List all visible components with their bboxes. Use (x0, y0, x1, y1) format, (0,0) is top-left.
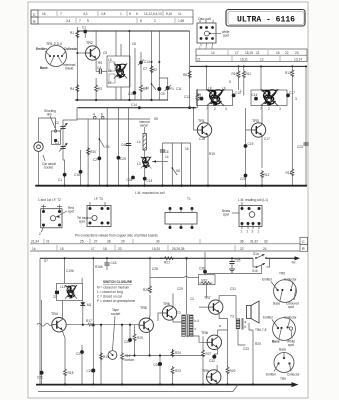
pin diagram IF T3 (77, 197, 111, 227)
wire TR7 emitter (219, 313, 227, 319)
wire T3 bottom (238, 329, 246, 345)
svg-text:S1a: S1a (253, 252, 259, 256)
svg-text:Pin connections viewed from co: Pin connections viewed from copper side … (75, 234, 158, 238)
C R reference boxes (300, 237, 308, 244)
svg-text:TR2: TR2 (86, 41, 93, 45)
svg-text:11: 11 (178, 12, 182, 16)
svg-text:15: 15 (60, 247, 64, 251)
wire main bus x186.5 (186, 258, 188, 314)
component ruler bottom (30, 237, 308, 251)
resistor R10 (238, 65, 240, 67)
capacitor C32 (214, 354, 217, 355)
svg-text:C35: C35 (235, 259, 241, 263)
svg-text:Emitter: Emitter (263, 316, 274, 320)
svg-text:C30: C30 (154, 363, 160, 367)
svg-text:21: 21 (46, 240, 50, 244)
svg-text:6: 6 (101, 113, 103, 117)
resistor R21 (160, 257, 163, 259)
wire TR1 collector (207, 106, 209, 124)
pin diagram LM reading coil L1 (222, 198, 268, 234)
oscillator coil box L13 (53, 278, 83, 301)
svg-text:R30: R30 (90, 150, 96, 154)
resistor R22 box (198, 275, 215, 285)
svg-text:C31: C31 (230, 287, 236, 291)
resistor R17 (87, 323, 96, 326)
svg-text:L = closed on long: L = closed on long (97, 290, 123, 294)
svg-text:M = closed on medium: M = closed on medium (97, 286, 129, 290)
resistor R30 (87, 147, 90, 155)
resistor R3 (95, 78, 97, 84)
resistor R4 (76, 84, 79, 92)
svg-text:Base: Base (273, 302, 280, 306)
IF transformer T2 box (197, 65, 241, 111)
wire TR2 emitter (95, 58, 97, 71)
svg-text:5: 5 (87, 19, 89, 23)
svg-text:6: 6 (136, 12, 138, 16)
wire top rail (77, 30, 189, 32)
svg-text:8: 8 (140, 19, 142, 23)
svg-text:24: 24 (263, 247, 267, 251)
capacitor C13 trimmer (139, 61, 143, 65)
svg-text:C34: C34 (127, 178, 133, 182)
svg-text:C7: C7 (143, 67, 147, 71)
svg-text:14,12,5,4,13: 14,12,5,4,13 (144, 12, 162, 16)
wire riser x101 (100, 325, 102, 385)
resistor R2 (150, 65, 153, 73)
svg-text:C24: C24 (124, 340, 130, 344)
wire riser x99 (98, 119, 100, 186)
svg-text:T1: T1 (187, 197, 191, 201)
oscillator coil box L5 L6 L7 (107, 31, 130, 100)
svg-text:C2: C2 (93, 158, 97, 162)
osc coil pin diagram (197, 17, 230, 50)
svg-text:4,3: 4,3 (83, 12, 88, 16)
wire aerial squiggle (37, 323, 52, 326)
wire TR8 emitter (217, 348, 219, 354)
svg-text:R24: R24 (175, 351, 181, 355)
svg-text:P = closed on gramophone: P = closed on gramophone (97, 299, 135, 303)
svg-text:M: M (146, 86, 149, 90)
wire socket top (39, 118, 56, 142)
svg-text:Emitter: Emitter (262, 278, 273, 282)
svg-text:C27: C27 (76, 352, 82, 356)
capacitor C22a (97, 157, 101, 161)
svg-text:C14: C14 (147, 179, 153, 183)
wire riser x181 (181, 143, 183, 186)
svg-text:L13: L13 (60, 285, 66, 289)
capacitor C19 (244, 144, 248, 148)
svg-text:R11: R11 (246, 72, 252, 76)
svg-text:C3: C3 (55, 141, 59, 145)
svg-text:L9: L9 (222, 87, 226, 91)
svg-text:18: 18 (103, 247, 107, 251)
svg-text:21: 21 (197, 58, 201, 62)
svg-text:socket: socket (111, 312, 120, 316)
resistor R8 (197, 89, 199, 93)
wire -9v arrow (266, 257, 297, 259)
resistor R27 (202, 336, 204, 349)
svg-text:b: b (245, 325, 247, 329)
svg-text:16: 16 (42, 12, 46, 16)
svg-text:C8: C8 (161, 92, 165, 96)
svg-text:C = closed on car: C = closed on car (97, 295, 123, 299)
svg-text:C12: C12 (184, 95, 190, 99)
wire TR2 base (77, 52, 85, 54)
wire TR6 collector (172, 293, 174, 307)
pin diagram T1 driver (165, 197, 197, 229)
svg-text:R: R (302, 247, 305, 251)
svg-text:1 and 1st I.F. T2: 1 and 1st I.F. T2 (38, 198, 61, 202)
svg-text:33: 33 (264, 240, 268, 244)
svg-text:C25: C25 (120, 157, 126, 161)
svg-text:I.F. T3: I.F. T3 (94, 197, 103, 201)
svg-text:C29: C29 (177, 287, 183, 291)
IF transformer T3 box (251, 65, 295, 111)
svg-text:3: 3 (212, 20, 214, 24)
svg-text:1: 1 (240, 89, 242, 93)
svg-text:19,20: 19,20 (152, 247, 160, 251)
svg-text:C20: C20 (240, 177, 246, 181)
wire riser x128.6 (128, 108, 130, 186)
svg-text:Base: Base (40, 66, 48, 70)
svg-text:2: 2 (205, 46, 207, 50)
svg-text:C9: C9 (197, 93, 201, 97)
capacitor C8 (157, 87, 161, 91)
svg-text:13,14: 13,14 (294, 58, 302, 62)
resistor R9 (140, 84, 143, 92)
svg-text:C18: C18 (199, 137, 205, 141)
wire TR2 collector (95, 31, 97, 48)
wire TR9 collector (216, 365, 218, 371)
svg-text:C21: C21 (37, 376, 43, 380)
svg-text:C36: C36 (199, 267, 205, 271)
ground (229, 269, 235, 272)
svg-text:5: 5 (229, 80, 231, 84)
resistor R1 (76, 30, 79, 38)
wire riser x189.6 (189, 31, 191, 108)
svg-text:R16b: R16b (95, 265, 103, 269)
wire TR5 collector to riser x150 (149, 316, 151, 320)
svg-text:R2: R2 (153, 68, 157, 72)
svg-text:16: 16 (276, 51, 280, 55)
svg-text:TR9: TR9 (280, 377, 286, 381)
svg-text:b,4: b,4 (195, 319, 200, 323)
wire bus x135 (134, 48, 136, 100)
svg-text:C26: C26 (87, 369, 93, 373)
svg-text:spot: spot (288, 343, 294, 347)
wire TR1 base (194, 108, 198, 130)
svg-text:S7: S7 (44, 259, 48, 263)
main earth rail (35, 185, 307, 187)
svg-text:21: 21 (256, 51, 260, 55)
svg-text:12: 12 (260, 58, 264, 62)
svg-text:R6: R6 (183, 73, 187, 77)
svg-text:3: 3 (225, 107, 227, 111)
svg-text:SWITCH CLOSURE: SWITCH CLOSURE (103, 280, 132, 284)
svg-text:4: 4 (93, 113, 95, 117)
svg-text:R15: R15 (209, 152, 215, 156)
pin diagram T1 and 1st IF T2 (38, 198, 74, 236)
capacitor C15 (133, 91, 137, 95)
pin ruler table (right, under title) (196, 49, 307, 62)
wire TR4 base row y324.7 (66, 324, 87, 326)
capacitor C1 (84, 30, 87, 33)
driver transformer T2 (177, 311, 199, 337)
svg-text:C17: C17 (264, 137, 270, 141)
svg-text:S3: S3 (106, 145, 110, 149)
svg-text:16: 16 (185, 147, 189, 151)
wire TR3 collector (261, 106, 263, 124)
svg-text:L5: L5 (108, 58, 112, 62)
svg-text:C16: C16 (74, 173, 80, 177)
svg-text:socket: socket (44, 166, 53, 170)
capacitor C34 (131, 176, 135, 180)
svg-text:R10: R10 (232, 72, 238, 76)
svg-text:2: 2 (214, 107, 216, 111)
wire riser x88 (87, 119, 89, 186)
wire left bus x40 (39, 258, 41, 384)
svg-text:3,4: 3,4 (66, 19, 71, 23)
svg-text:27: 27 (94, 240, 98, 244)
svg-text:9,10: 9,10 (166, 12, 172, 16)
wire TR6 base (158, 313, 162, 321)
capacitor C25 (117, 156, 121, 160)
svg-text:spot: spot (68, 210, 74, 214)
svg-text:17: 17 (91, 247, 95, 251)
svg-text:23: 23 (118, 247, 122, 251)
title box ULTRA - 6116 (226, 10, 305, 27)
wire gang to rail (63, 160, 65, 186)
svg-text:TR6,7,8: TR6,7,8 (255, 328, 267, 332)
svg-text:22: 22 (240, 247, 244, 251)
wire right margin bus (305, 66, 307, 185)
svg-text:a: a (245, 320, 247, 324)
svg-text:31,32: 31,32 (250, 240, 258, 244)
capacitor C35 (231, 258, 233, 261)
capacitor C20 (244, 174, 248, 178)
wire mid rail y355.5 (125, 355, 205, 357)
svg-text:R26: R26 (143, 288, 149, 292)
svg-text:R27: R27 (206, 352, 212, 356)
wire rail y100 (75, 99, 168, 101)
trimmer P1 (159, 78, 167, 86)
wire rail y107.7 (77, 107, 196, 109)
pinout circle TR5 (262, 272, 299, 310)
svg-text:R25: R25 (137, 336, 143, 340)
svg-text:C15: C15 (128, 92, 134, 96)
svg-text:2: 2 (154, 19, 156, 23)
svg-text:T3: T3 (230, 315, 234, 319)
transistor pinout circle TR1,2,3,4 (36, 42, 79, 71)
svg-text:L4: L4 (137, 140, 141, 144)
switch S2 (152, 84, 157, 90)
svg-text:2,8: 2,8 (101, 12, 106, 16)
wire HT rail right y66.4 (190, 65, 307, 67)
wire link y143 (163, 142, 191, 144)
svg-text:aerial: aerial (140, 124, 148, 128)
svg-text:C33: C33 (243, 347, 249, 351)
resistor R19 (100, 352, 103, 360)
wire bus x64.6 (64, 258, 66, 283)
svg-text:TR5: TR5 (140, 306, 147, 310)
svg-text:bottom: bottom (125, 358, 135, 362)
wire riser x159 (158, 31, 160, 87)
wire riser x107 (106, 108, 108, 186)
wire aerial feed y119 (77, 118, 150, 120)
svg-text:3: 3 (279, 107, 281, 111)
wire R22 to TR7 (206, 285, 208, 297)
svg-text:C1: C1 (58, 178, 62, 182)
svg-text:C16: C16 (252, 93, 258, 97)
capacitor C26 (91, 369, 95, 373)
svg-text:14: 14 (211, 51, 215, 55)
svg-text:C13: C13 (144, 60, 150, 64)
svg-text:3: 3 (252, 230, 254, 234)
wire speaker return (249, 323, 253, 385)
wire TR7 collector (219, 296, 236, 319)
svg-text:22: 22 (285, 51, 289, 55)
svg-text:C6: C6 (165, 150, 169, 154)
svg-text:7: 7 (60, 12, 62, 16)
svg-text:14: 14 (165, 155, 169, 159)
svg-text:L.M. reading coil (L1): L.M. reading coil (L1) (238, 198, 268, 202)
wire gang top link (63, 108, 77, 120)
capacitor C21a (303, 143, 308, 145)
resistor R25 (134, 325, 136, 333)
svg-text:Collector: Collector (287, 373, 301, 377)
capacitor C18 (106, 258, 108, 263)
svg-text:R29: R29 (230, 369, 236, 373)
wire TR1 emitter (207, 136, 209, 186)
resistor R14 (291, 90, 293, 168)
svg-text:3: 3 (295, 97, 297, 101)
svg-text:C11: C11 (176, 87, 182, 91)
svg-text:R12: R12 (264, 173, 270, 177)
svg-text:S5: S5 (154, 117, 158, 121)
svg-text:1: 1 (120, 12, 122, 16)
capacitor C27 (81, 345, 83, 385)
resistor R12 (261, 170, 264, 178)
loudspeaker (247, 306, 252, 319)
svg-text:C6: C6 (132, 42, 136, 46)
wire bus x93.3 (92, 258, 94, 384)
wire riser x172 (171, 143, 173, 186)
svg-text:14: 14 (32, 247, 36, 251)
svg-text:TR5: TR5 (279, 272, 285, 276)
svg-text:7: 7 (79, 19, 81, 23)
switch S1a (255, 257, 257, 259)
svg-text:R17: R17 (86, 319, 92, 323)
svg-text:R14: R14 (286, 171, 292, 175)
svg-text:-9v: -9v (291, 261, 296, 265)
svg-text:18,19: 18,19 (245, 51, 253, 55)
wire TR4 emitter (63, 331, 66, 368)
svg-text:C28: C28 (152, 267, 158, 271)
svg-text:spot: spot (79, 220, 85, 224)
svg-text:R18: R18 (68, 371, 74, 375)
svg-text:1: 1 (241, 230, 243, 234)
svg-text:Base: Base (279, 348, 286, 352)
svg-text:TR7: TR7 (204, 296, 211, 300)
svg-text:shield: shield (65, 67, 74, 71)
svg-text:L3: L3 (137, 162, 141, 166)
svg-text:30: 30 (156, 240, 160, 244)
capacitor C21 (41, 300, 43, 371)
link plug (51, 131, 60, 144)
tuning gang C2 (60, 127, 65, 129)
svg-text:R3: R3 (98, 87, 102, 91)
svg-text:4: 4 (199, 20, 201, 24)
svg-text:R21: R21 (164, 261, 170, 265)
svg-text:C2: C2 (55, 121, 59, 125)
svg-text:2: 2 (268, 107, 270, 111)
svg-text:S1b: S1b (252, 269, 258, 273)
svg-text:T2: T2 (177, 311, 181, 315)
svg-text:Base: Base (272, 340, 280, 344)
resistor R13 (291, 65, 293, 67)
svg-text:C19: C19 (248, 142, 254, 146)
svg-text:TR4: TR4 (51, 312, 58, 316)
resistor R6 (188, 70, 191, 78)
wire TR8 collector (218, 319, 228, 337)
svg-text:2: 2 (247, 230, 249, 234)
capacitor C30 (159, 356, 161, 363)
svg-text:C23: C23 (297, 145, 303, 149)
svg-text:22: 22 (53, 295, 57, 299)
resistor R16 (121, 325, 123, 352)
svg-text:C18: C18 (111, 261, 117, 265)
svg-text:TR8: TR8 (201, 331, 208, 335)
wire TR4 collector (62, 301, 64, 319)
svg-text:5: 5 (205, 20, 207, 24)
svg-text:5: 5 (129, 12, 131, 16)
svg-text:spot: spot (288, 305, 294, 309)
supply rail y258 (40, 257, 253, 259)
svg-text:C19b: C19b (66, 269, 74, 273)
capacitor C36 (203, 270, 207, 274)
svg-text:36: 36 (240, 240, 244, 244)
svg-text:spot: spot (223, 34, 229, 38)
svg-text:link: link (47, 113, 52, 117)
svg-text:L.M. mounted on coil: L.M. mounted on coil (135, 191, 165, 195)
svg-text:2: 2 (39, 232, 41, 236)
wire TR3 base via C19 bus (246, 108, 252, 130)
svg-text:R23: R23 (175, 369, 181, 373)
svg-text:C4: C4 (97, 66, 101, 70)
wire TR7 base (199, 306, 209, 308)
svg-text:S6: S6 (176, 169, 180, 173)
svg-text:23: 23 (295, 51, 299, 55)
svg-text:C1: C1 (82, 26, 86, 30)
pinout circle TR6,7,8 (255, 316, 298, 348)
svg-text:16,11: 16,11 (240, 58, 248, 62)
wire TR6 emitter to T2 (173, 318, 182, 322)
wire left HT bus (76, 27, 78, 100)
wire feedback y277.5 (150, 277, 157, 279)
svg-text:C14: C14 (131, 103, 137, 107)
svg-text:ULTRA - 6116: ULTRA - 6116 (237, 15, 295, 25)
resistor R26 (149, 258, 151, 285)
resistor R23 (171, 366, 174, 374)
svg-text:C: C (33, 13, 36, 17)
capacitor C24 (129, 325, 131, 338)
capacitor C14b (143, 177, 147, 181)
secondary bottom wire (38, 385, 238, 392)
wire arrow into L3 (152, 161, 168, 163)
wire socket bottom to rail (38, 151, 40, 185)
svg-text:R5: R5 (98, 61, 102, 65)
svg-text:29: 29 (121, 240, 125, 244)
